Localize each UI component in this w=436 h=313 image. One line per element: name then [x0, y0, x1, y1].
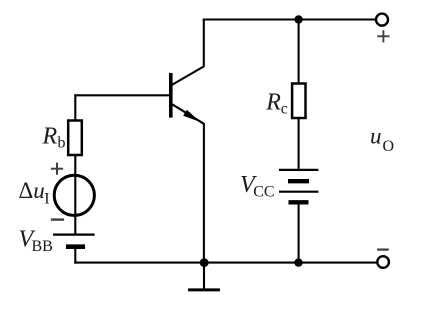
- battery VCC short thick plate 2: [289, 200, 309, 204]
- wire: VBB bottom plate down to bottom rail: [74, 249, 76, 264]
- wire: left vertical from base wire to Rb: [74, 94, 76, 120]
- wire: bottom rail: [74, 262, 377, 264]
- label - of signal source: [51, 218, 64, 220]
- svg-text:u: u: [370, 123, 382, 148]
- transistor Q1 emitter diagonal lead: [172, 104, 204, 124]
- output terminal - (open circle): [377, 256, 389, 268]
- resistor Rb body: [68, 121, 82, 156]
- output terminal + (open circle): [376, 14, 388, 26]
- junction dot emitter / ground node: [200, 258, 209, 267]
- svg-text:R: R: [42, 124, 58, 150]
- transistor Q1 base bar: [169, 73, 173, 118]
- wire: emitter vertical down to bottom rail: [203, 123, 205, 263]
- svg-text:BB: BB: [32, 238, 53, 255]
- wire: from Rb through source circle to VBB top plate: [74, 155, 76, 234]
- wire: base wire horizontal: [74, 94, 169, 96]
- svg-text:CC: CC: [253, 184, 274, 201]
- svg-text:R: R: [265, 90, 281, 116]
- wire: collector vertical segment: [203, 19, 205, 67]
- junction dot bottom rail / VCC node: [294, 258, 302, 266]
- svg-text:Δu: Δu: [19, 178, 45, 203]
- label - at output: [377, 248, 389, 250]
- signal source circle: [54, 175, 94, 215]
- wire: from top rail down to Rc: [298, 20, 300, 84]
- battery VCC long plate 1: [279, 169, 318, 171]
- wire: ground stub: [203, 263, 205, 290]
- battery VBB short thick plate: [66, 244, 85, 249]
- resistor Rc body: [292, 84, 305, 119]
- battery VCC short thick plate 1: [288, 179, 309, 183]
- battery VCC long plate 2: [279, 191, 318, 193]
- wire: top rail from collector corner to + output terminal: [203, 18, 376, 20]
- ground bar: [188, 288, 220, 291]
- transistor Q1 emitter arrowhead: [183, 110, 200, 122]
- svg-text:c: c: [281, 100, 288, 117]
- svg-text:I: I: [44, 191, 49, 208]
- wire: from VCC down to bottom rail: [298, 204, 300, 263]
- junction dot top rail / Rc node: [294, 15, 302, 23]
- label + at output: [377, 30, 389, 42]
- wire: from Rc down to VCC: [298, 118, 300, 169]
- transistor Q1 collector diagonal lead: [172, 66, 205, 85]
- svg-text:b: b: [58, 135, 66, 152]
- battery VBB long plate: [53, 234, 95, 236]
- label + of signal source: [51, 163, 63, 175]
- svg-text:O: O: [383, 138, 395, 155]
